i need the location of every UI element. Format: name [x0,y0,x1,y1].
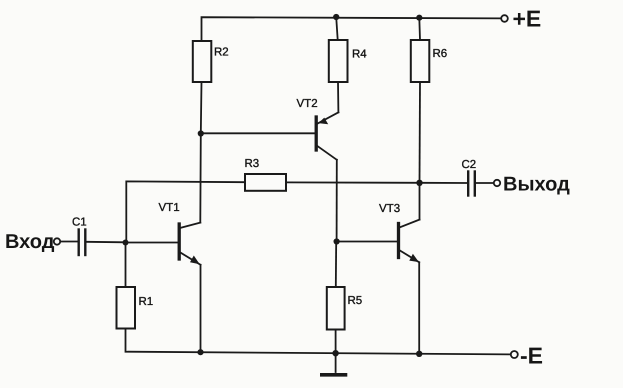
terminal output [494,180,500,186]
wire R2 to node base VT2 [200,82,203,134]
ground [322,353,346,375]
node R4 at top rail [333,14,339,20]
wire R4 top to rail [336,17,338,40]
wire R5 bottom to rail [335,330,337,354]
resistor R6 [411,40,430,82]
node VT2 collector / VT3 base [334,238,340,244]
resistor R2 [193,41,212,82]
resistor R1 [117,287,136,329]
node VT3 emitter at rail [416,351,422,357]
wire top supply rail [202,17,504,41]
resistor R3 [245,174,286,191]
wire bottom supply rail [126,329,511,355]
svg-text:Вход: Вход [5,231,55,253]
resistor R5 [327,287,345,330]
node VT1 emitter at rail [197,349,203,355]
wire node down to VT1 collector [199,134,202,223]
wire node down to R5 [335,242,337,288]
wire input to C1 [61,241,78,243]
svg-text:R1: R1 [139,296,154,308]
wire VT1 emitter down to rail [200,265,202,352]
svg-text:R6: R6 [433,48,448,60]
terminal input [54,238,60,244]
wire VT3 emitter down to rail [418,262,420,354]
wire input node down to R1 [125,243,127,288]
svg-text:R3: R3 [245,158,260,170]
capacitor C2 [468,172,475,196]
svg-text:-E: -E [520,342,543,368]
svg-text:C2: C2 [462,159,477,171]
wire VT3 collector up to output node [419,183,421,220]
wire VT2 emitter up to R4 [337,82,339,112]
svg-text:+E: +E [513,6,542,32]
wire C2 to output terminal [476,182,494,184]
svg-text:VT1: VT1 [159,202,180,214]
wire R6 top to rail [418,18,421,40]
wire R3 right to output node [286,181,420,183]
terminal -E [511,351,518,358]
wire R6 bottom to output node [419,82,422,183]
transistor VT2 [316,112,338,159]
node output [416,180,422,186]
capacitor C1 [79,230,86,256]
wire VT2 collector down to node [336,160,338,242]
transistor VT3 [337,220,420,263]
node input (base VT1) [123,240,129,246]
svg-text:C1: C1 [72,217,87,229]
svg-text:VT3: VT3 [379,203,400,215]
wire C1 to input node [87,241,126,244]
node R6 at top rail [416,15,422,21]
svg-text:Выход: Выход [503,174,570,196]
resistor R4 [329,40,348,82]
node R2 bottom [198,130,204,136]
wire output node to C2 [420,182,468,184]
wire node to VT2 base [201,132,315,134]
svg-text:R4: R4 [352,49,367,61]
svg-text:R2: R2 [214,47,229,59]
svg-text:VT2: VT2 [297,98,318,110]
wire R3 left to input node column [126,181,245,242]
transistor VT1 [126,223,201,265]
svg-text:R5: R5 [348,295,363,307]
terminal +E [501,15,508,22]
node R5 at bottom rail [332,350,338,356]
